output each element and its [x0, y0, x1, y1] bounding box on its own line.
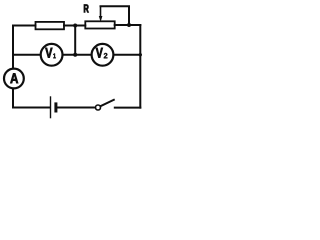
- wire right rail: [139, 25, 141, 108]
- wire left rail upper (top wire corner to ammeter): [12, 26, 14, 69]
- wire top left (corner to resistor): [13, 25, 36, 27]
- node junction voltmeter row: [73, 53, 77, 57]
- label V2: [96, 48, 108, 59]
- battery long plate: [50, 97, 52, 118]
- label A: [10, 73, 18, 83]
- wire rheostat to right rail: [115, 24, 141, 26]
- wire left rail lower (ammeter to bottom-left corner): [12, 89, 14, 108]
- wire voltmeter row middle (V1 to V2): [63, 54, 92, 56]
- wire vertical tap (top wire to voltmeter row): [74, 26, 76, 55]
- wire battery to switch: [57, 107, 96, 109]
- wire voltmeter row left (rail to V1): [13, 54, 40, 56]
- node junction rheostat output: [127, 23, 131, 27]
- wire voltmeter row right (V2 to right rail): [114, 54, 141, 56]
- node junction right rail: [139, 53, 142, 56]
- switch lever: [101, 100, 114, 106]
- voltmeter V2: [92, 44, 114, 66]
- ammeter A: [4, 69, 24, 89]
- rheostat slider arrow: [99, 6, 103, 22]
- rheostat R body: [85, 21, 114, 28]
- resistor R1: [36, 22, 65, 29]
- wire top middle (resistor to rheostat): [64, 25, 85, 27]
- node junction top (vertical tap): [73, 24, 77, 28]
- voltmeter V1: [41, 44, 63, 66]
- switch pivot: [96, 105, 101, 110]
- label V1: [45, 48, 56, 58]
- wire switch to bottom-right corner: [115, 107, 141, 109]
- wire bottom left (corner to battery): [13, 107, 49, 109]
- label R: [84, 5, 89, 13]
- wire slider loop (arrow top, right, down to output): [101, 6, 130, 25]
- battery short plate: [54, 104, 57, 111]
